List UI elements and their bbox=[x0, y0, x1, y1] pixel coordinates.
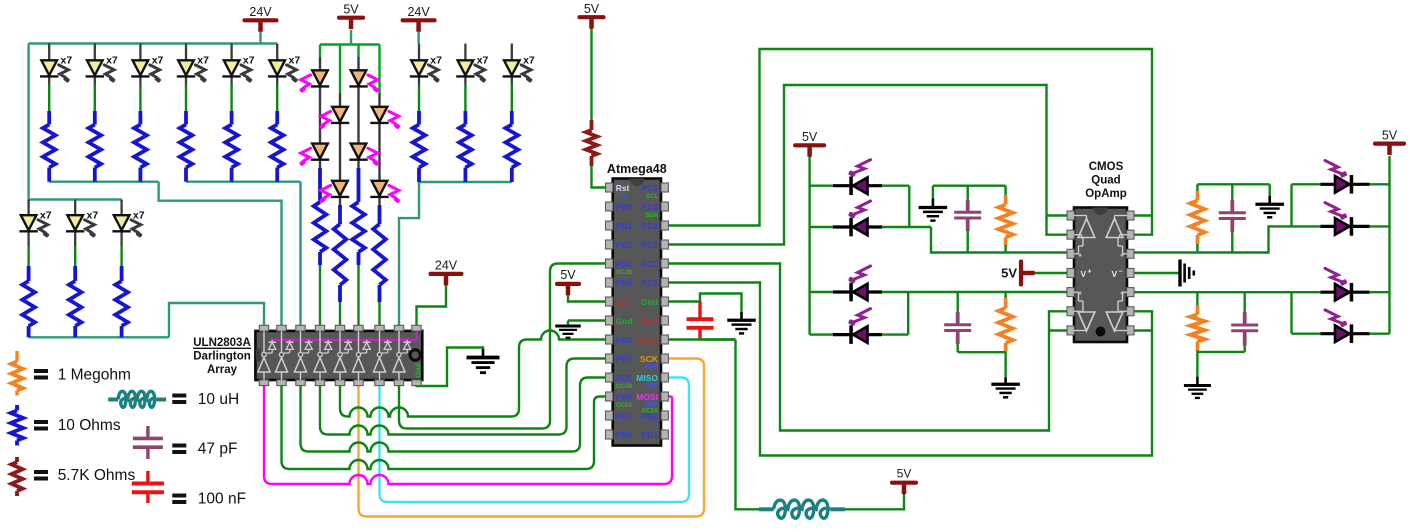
svg-text:PD7: PD7 bbox=[616, 411, 633, 421]
svg-text:Aref: Aref bbox=[641, 316, 658, 326]
svg-text:+: + bbox=[1078, 291, 1082, 298]
svg-text:CMOS: CMOS bbox=[1089, 161, 1124, 173]
svg-text:Array: Array bbox=[207, 364, 238, 376]
svg-text:PD3: PD3 bbox=[616, 259, 633, 269]
svg-text:+: + bbox=[1088, 269, 1092, 276]
svg-text:ULN2803A: ULN2803A bbox=[193, 337, 251, 349]
svg-text:5V: 5V bbox=[802, 130, 818, 144]
svg-text:PD4: PD4 bbox=[616, 278, 633, 288]
svg-text:OC0B: OC0B bbox=[616, 384, 633, 390]
svg-text:Gnd: Gnd bbox=[641, 297, 658, 307]
svg-text:5V: 5V bbox=[584, 2, 600, 16]
svg-text:PD5: PD5 bbox=[616, 373, 633, 383]
svg-text:x7: x7 bbox=[133, 210, 145, 222]
svg-text:10 Ohms: 10 Ohms bbox=[58, 417, 121, 434]
svg-text:+: + bbox=[1120, 253, 1124, 260]
svg-text:5V: 5V bbox=[1382, 128, 1398, 142]
svg-text:x7: x7 bbox=[87, 210, 99, 222]
svg-text:SCK: SCK bbox=[640, 354, 659, 364]
svg-text:x7: x7 bbox=[477, 55, 489, 67]
svg-text:x7: x7 bbox=[430, 55, 442, 67]
svg-text:Gnd: Gnd bbox=[414, 363, 423, 378]
svg-text:OC2B: OC2B bbox=[616, 270, 633, 276]
svg-text:SDA: SDA bbox=[645, 213, 658, 219]
svg-text:24V: 24V bbox=[407, 5, 430, 19]
svg-text:PD6: PD6 bbox=[616, 392, 633, 402]
svg-text:x7: x7 bbox=[523, 55, 535, 67]
svg-text:Darlington: Darlington bbox=[193, 351, 251, 363]
svg-text:24V: 24V bbox=[249, 5, 272, 19]
svg-text:+: + bbox=[1120, 291, 1124, 298]
svg-text:PB2: PB2 bbox=[641, 411, 658, 421]
svg-text:PC6: PC6 bbox=[617, 194, 629, 200]
svg-text:5V: 5V bbox=[343, 2, 359, 16]
svg-text:PB6: PB6 bbox=[616, 335, 633, 345]
svg-text:x7: x7 bbox=[197, 55, 209, 67]
svg-text:x7: x7 bbox=[40, 210, 52, 222]
svg-text:V: V bbox=[1081, 269, 1087, 279]
svg-text:MISO: MISO bbox=[636, 373, 658, 383]
svg-text:SCL: SCL bbox=[646, 194, 658, 200]
svg-text:PB4: PB4 bbox=[645, 384, 657, 390]
svg-text:x7: x7 bbox=[152, 55, 164, 67]
svg-text:x7: x7 bbox=[289, 55, 301, 67]
svg-text:x7: x7 bbox=[106, 55, 118, 67]
svg-text:PB7: PB7 bbox=[616, 354, 633, 364]
svg-text:PB1: PB1 bbox=[641, 430, 658, 440]
svg-text:Vcc: Vcc bbox=[616, 297, 631, 307]
svg-text:100 nF: 100 nF bbox=[198, 491, 246, 508]
svg-text:1 Megohm: 1 Megohm bbox=[58, 367, 131, 384]
svg-text:x7: x7 bbox=[243, 55, 255, 67]
svg-text:PD1: PD1 bbox=[616, 221, 633, 231]
svg-text:MOSI: MOSI bbox=[636, 392, 658, 402]
svg-text:PC0: PC0 bbox=[641, 278, 658, 288]
svg-text:Gnd: Gnd bbox=[616, 316, 633, 326]
svg-text:5.7K Ohms: 5.7K Ohms bbox=[58, 467, 136, 484]
svg-text:OC0A: OC0A bbox=[616, 403, 633, 409]
svg-text:V: V bbox=[1112, 269, 1118, 279]
svg-text:Quad: Quad bbox=[1091, 175, 1120, 187]
svg-text:5V: 5V bbox=[560, 268, 576, 282]
svg-text:−: − bbox=[1119, 269, 1123, 276]
svg-text:PD2: PD2 bbox=[616, 240, 633, 250]
svg-text:PC1: PC1 bbox=[641, 259, 658, 269]
svg-text:10 uH: 10 uH bbox=[198, 391, 239, 408]
svg-text:PB0: PB0 bbox=[616, 430, 633, 440]
svg-text:OpAmp: OpAmp bbox=[1085, 188, 1127, 200]
svg-text:Rst: Rst bbox=[616, 183, 630, 193]
svg-text:5V: 5V bbox=[1001, 266, 1017, 281]
svg-text:47 pF: 47 pF bbox=[198, 441, 238, 458]
svg-text:x7: x7 bbox=[61, 55, 73, 67]
svg-text:PC4: PC4 bbox=[641, 202, 658, 212]
svg-text:PC3: PC3 bbox=[641, 221, 658, 231]
svg-text:Atmega48: Atmega48 bbox=[607, 162, 667, 176]
svg-text:AVcc: AVcc bbox=[637, 335, 658, 345]
svg-text:PC5: PC5 bbox=[641, 183, 658, 193]
svg-text:PC2: PC2 bbox=[641, 240, 658, 250]
svg-text:PB5: PB5 bbox=[645, 365, 657, 371]
svg-text:PD0: PD0 bbox=[616, 202, 633, 212]
svg-text:+: + bbox=[1078, 253, 1082, 260]
svg-text:24V: 24V bbox=[435, 259, 458, 273]
svg-text:5V: 5V bbox=[897, 467, 912, 481]
